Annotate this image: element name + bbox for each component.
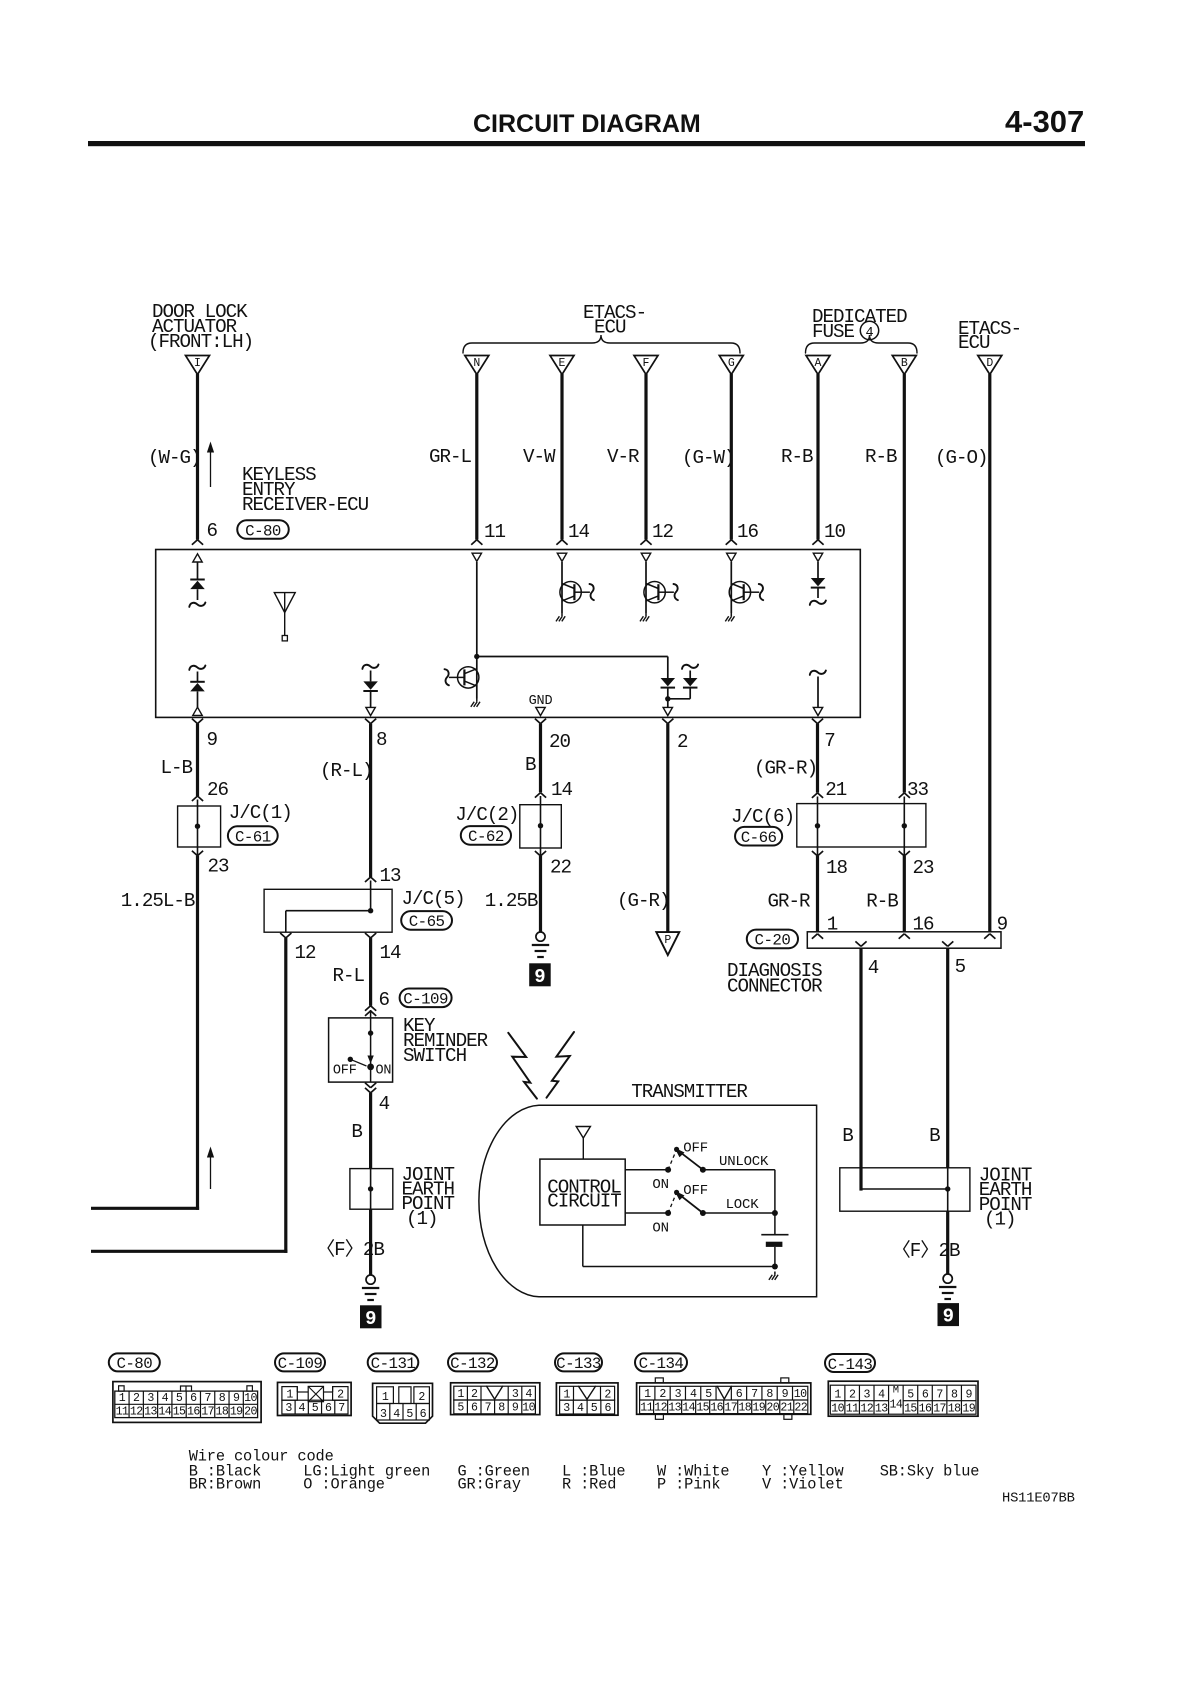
svg-text:10: 10 [831, 1403, 844, 1416]
svg-text:17: 17 [933, 1403, 946, 1416]
svg-text:8: 8 [219, 1392, 226, 1405]
svg-text:10: 10 [794, 1388, 807, 1401]
svg-text:2: 2 [471, 1388, 478, 1401]
svg-text:I: I [194, 357, 201, 370]
svg-text:OFF: OFF [683, 1183, 708, 1199]
svg-text:6: 6 [190, 1392, 197, 1405]
svg-text:14: 14 [158, 1405, 171, 1418]
svg-text:14: 14 [380, 942, 402, 964]
svg-text:J/C(1): J/C(1) [229, 802, 292, 824]
svg-text:2: 2 [604, 1388, 611, 1401]
svg-text:SB:Sky blue: SB:Sky blue [880, 1463, 980, 1481]
svg-text:C-65: C-65 [409, 913, 445, 931]
svg-text:20: 20 [244, 1405, 257, 1418]
svg-text:B: B [842, 1125, 853, 1147]
svg-text:7: 7 [824, 730, 835, 752]
svg-text:ECU: ECU [958, 332, 990, 354]
svg-text:J/C(6): J/C(6) [731, 806, 794, 828]
svg-text:9: 9 [966, 1389, 973, 1402]
svg-text:9: 9 [943, 1306, 954, 1328]
svg-text:C-20: C-20 [755, 932, 791, 950]
svg-text:14: 14 [682, 1401, 695, 1414]
svg-text:23: 23 [208, 856, 230, 878]
svg-text:6: 6 [922, 1389, 929, 1402]
svg-text:D: D [986, 357, 993, 370]
svg-text:9: 9 [512, 1402, 519, 1415]
svg-text:2: 2 [337, 1388, 344, 1401]
svg-text:P: P [664, 934, 671, 947]
svg-text:B: B [351, 1121, 362, 1143]
svg-text:9: 9 [207, 729, 218, 751]
svg-text:13: 13 [144, 1405, 157, 1418]
svg-text:4: 4 [162, 1392, 169, 1405]
svg-text:4: 4 [525, 1388, 532, 1401]
svg-text:16: 16 [919, 1403, 932, 1416]
svg-text:10: 10 [824, 521, 846, 543]
svg-text:2: 2 [677, 731, 688, 753]
svg-text:GR-R: GR-R [768, 891, 812, 913]
svg-text:(R-L): (R-L) [320, 760, 373, 782]
svg-text:4: 4 [393, 1408, 400, 1421]
svg-text:(FRONT:LH): (FRONT:LH) [148, 331, 253, 353]
svg-text:3: 3 [563, 1402, 570, 1415]
svg-text:6: 6 [736, 1388, 743, 1401]
svg-text:C-66: C-66 [741, 829, 777, 847]
svg-text:15: 15 [173, 1405, 186, 1418]
svg-text:OFF: OFF [683, 1141, 708, 1157]
svg-text:5: 5 [406, 1408, 413, 1421]
svg-text:〈F〉2B: 〈F〉2B [892, 1239, 960, 1262]
svg-text:1.25L-B: 1.25L-B [121, 890, 195, 912]
svg-text:C-143: C-143 [828, 1356, 873, 1374]
svg-text:5: 5 [955, 956, 966, 978]
svg-text:1: 1 [286, 1388, 293, 1401]
svg-text:J/C(5): J/C(5) [402, 888, 465, 910]
svg-text:6: 6 [471, 1402, 478, 1415]
svg-text:5: 5 [705, 1388, 712, 1401]
svg-text:16: 16 [710, 1401, 723, 1414]
svg-text:12: 12 [860, 1403, 873, 1416]
svg-text:ON: ON [652, 1221, 668, 1237]
svg-text:E: E [559, 357, 566, 370]
svg-text:3: 3 [380, 1408, 387, 1421]
svg-text:7: 7 [204, 1392, 211, 1405]
svg-text:M: M [893, 1385, 899, 1397]
svg-text:21: 21 [825, 779, 847, 801]
svg-text:19: 19 [230, 1405, 243, 1418]
svg-text:3: 3 [675, 1388, 682, 1401]
svg-text:C-109: C-109 [278, 1355, 323, 1373]
svg-text:7: 7 [485, 1402, 492, 1415]
svg-text:16: 16 [187, 1405, 200, 1418]
svg-text:20: 20 [549, 731, 571, 753]
svg-text:7: 7 [936, 1389, 943, 1402]
svg-text:7: 7 [338, 1402, 345, 1415]
svg-text:12: 12 [130, 1405, 143, 1418]
svg-text:18: 18 [948, 1403, 961, 1416]
svg-text:15: 15 [904, 1403, 917, 1416]
svg-text:A: A [815, 357, 822, 370]
svg-text:4: 4 [868, 957, 879, 979]
svg-text:1: 1 [119, 1392, 126, 1405]
svg-text:B: B [929, 1125, 940, 1147]
svg-text:(W-G): (W-G) [148, 447, 201, 469]
svg-text:5: 5 [591, 1402, 598, 1415]
svg-text:V-W: V-W [523, 446, 556, 468]
svg-text:1: 1 [382, 1391, 389, 1404]
svg-text:6: 6 [325, 1402, 332, 1415]
svg-text:C-80: C-80 [116, 1355, 152, 1373]
svg-text:21: 21 [780, 1401, 793, 1414]
svg-text:11: 11 [484, 521, 506, 543]
svg-text:18: 18 [216, 1405, 229, 1418]
svg-text:(1): (1) [406, 1208, 438, 1230]
svg-text:8: 8 [498, 1402, 505, 1415]
svg-text:R-L: R-L [333, 965, 365, 987]
svg-text:6: 6 [379, 989, 390, 1011]
svg-text:V-R: V-R [607, 446, 640, 468]
svg-text:2: 2 [133, 1392, 140, 1405]
svg-text:(G-R): (G-R) [617, 890, 670, 912]
svg-text:17: 17 [724, 1401, 737, 1414]
svg-text:C-132: C-132 [450, 1355, 495, 1373]
svg-text:V :Violet: V :Violet [762, 1476, 844, 1494]
svg-text:11: 11 [846, 1403, 859, 1416]
svg-text:R-B: R-B [865, 446, 897, 468]
svg-text:UNLOCK: UNLOCK [719, 1154, 769, 1170]
svg-text:1: 1 [457, 1388, 464, 1401]
svg-text:C-134: C-134 [639, 1355, 684, 1373]
svg-text:C-62: C-62 [468, 828, 504, 846]
svg-text:J/C(2): J/C(2) [455, 804, 518, 826]
svg-text:B: B [901, 357, 908, 370]
svg-text:19: 19 [752, 1401, 765, 1414]
svg-text:F: F [643, 357, 650, 370]
svg-text:2: 2 [418, 1391, 425, 1404]
svg-text:2: 2 [849, 1389, 856, 1402]
svg-text:LOCK: LOCK [726, 1197, 760, 1213]
svg-text:13: 13 [668, 1401, 681, 1414]
svg-text:10: 10 [522, 1402, 535, 1415]
svg-text:R-B: R-B [866, 891, 898, 913]
svg-text:C-61: C-61 [235, 828, 271, 846]
svg-text:CIRCUIT DIAGRAM: CIRCUIT DIAGRAM [473, 110, 701, 138]
svg-text:(G-W): (G-W) [682, 447, 735, 469]
svg-text:〈F〉2B: 〈F〉2B [316, 1238, 384, 1261]
svg-text:GR-L: GR-L [429, 446, 472, 468]
svg-text:6: 6 [207, 520, 218, 542]
svg-text:10: 10 [244, 1392, 257, 1405]
svg-text:9: 9 [365, 1308, 376, 1330]
svg-text:B: B [525, 754, 536, 776]
svg-text:3: 3 [285, 1402, 292, 1415]
svg-text:RECEIVER-ECU: RECEIVER-ECU [242, 494, 369, 516]
svg-text:(G-O): (G-O) [935, 447, 988, 469]
svg-text:8: 8 [951, 1389, 958, 1402]
svg-text:12: 12 [654, 1401, 667, 1414]
svg-text:4: 4 [379, 1093, 390, 1115]
svg-text:G: G [728, 357, 735, 370]
svg-text:BR:Brown: BR:Brown [189, 1476, 261, 1494]
svg-text:2: 2 [659, 1388, 666, 1401]
svg-text:CONNECTOR: CONNECTOR [727, 976, 823, 998]
svg-text:9: 9 [233, 1392, 240, 1405]
svg-text:20: 20 [766, 1401, 779, 1414]
svg-text:33: 33 [907, 779, 929, 801]
svg-text:HS11E07BB: HS11E07BB [1002, 1492, 1075, 1507]
svg-text:3: 3 [512, 1388, 519, 1401]
svg-text:15: 15 [696, 1401, 709, 1414]
svg-text:GR:Gray: GR:Gray [458, 1476, 521, 1494]
svg-text:12: 12 [295, 942, 317, 964]
svg-text:16: 16 [737, 521, 759, 543]
svg-text:4: 4 [878, 1389, 885, 1402]
svg-text:C-80: C-80 [245, 522, 281, 540]
svg-text:(GR-R): (GR-R) [754, 758, 817, 780]
svg-text:C-131: C-131 [371, 1355, 416, 1373]
svg-text:14: 14 [568, 521, 590, 543]
svg-text:19: 19 [962, 1403, 975, 1416]
svg-text:1: 1 [834, 1389, 841, 1402]
svg-text:8: 8 [376, 729, 387, 751]
svg-text:SWITCH: SWITCH [403, 1045, 466, 1067]
svg-text:4-307: 4-307 [1005, 104, 1084, 139]
svg-text:13: 13 [875, 1403, 888, 1416]
svg-text:11: 11 [116, 1405, 129, 1418]
svg-text:ON: ON [652, 1177, 668, 1193]
svg-text:R :Red: R :Red [562, 1476, 616, 1494]
svg-text:9: 9 [782, 1388, 789, 1401]
svg-text:18: 18 [826, 857, 848, 879]
svg-text:13: 13 [380, 865, 402, 887]
svg-text:4: 4 [577, 1402, 584, 1415]
svg-text:26: 26 [207, 779, 229, 801]
svg-text:1: 1 [563, 1388, 570, 1401]
svg-text:TRANSMITTER: TRANSMITTER [631, 1081, 748, 1103]
svg-text:3: 3 [147, 1392, 154, 1405]
svg-text:5: 5 [312, 1402, 319, 1415]
svg-text:O :Orange: O :Orange [303, 1476, 385, 1494]
svg-text:ECU: ECU [594, 317, 626, 339]
svg-text:1.25B: 1.25B [485, 890, 538, 912]
svg-text:14: 14 [551, 779, 573, 801]
svg-text:L-B: L-B [161, 757, 193, 779]
svg-text:7: 7 [751, 1388, 758, 1401]
svg-text:1: 1 [644, 1388, 651, 1401]
svg-text:C-133: C-133 [556, 1355, 601, 1373]
svg-text:C-109: C-109 [403, 991, 448, 1009]
svg-text:OFF: OFF [333, 1064, 357, 1079]
svg-text:6: 6 [605, 1402, 612, 1415]
svg-text:N: N [473, 357, 480, 370]
svg-text:5: 5 [907, 1389, 914, 1402]
svg-text:22: 22 [794, 1401, 807, 1414]
svg-text:R-B: R-B [781, 446, 813, 468]
svg-text:9: 9 [534, 966, 545, 988]
svg-text:(1): (1) [984, 1208, 1016, 1230]
svg-text:CIRCUIT: CIRCUIT [547, 1191, 621, 1213]
svg-text:8: 8 [766, 1388, 773, 1401]
svg-text:5: 5 [176, 1392, 183, 1405]
svg-text:12: 12 [652, 521, 674, 543]
svg-text:FUSE: FUSE [812, 321, 855, 343]
svg-text:17: 17 [201, 1405, 214, 1418]
svg-text:11: 11 [640, 1401, 653, 1414]
svg-text:22: 22 [550, 857, 572, 879]
svg-text:4: 4 [299, 1402, 306, 1415]
svg-text:P :Pink: P :Pink [657, 1476, 720, 1494]
svg-text:3: 3 [864, 1389, 871, 1402]
svg-text:14: 14 [890, 1399, 903, 1412]
svg-text:ON: ON [376, 1064, 392, 1079]
svg-text:6: 6 [420, 1408, 427, 1421]
svg-text:18: 18 [738, 1401, 751, 1414]
svg-text:5: 5 [457, 1402, 464, 1415]
svg-text:4: 4 [690, 1388, 697, 1401]
svg-text:23: 23 [913, 857, 935, 879]
